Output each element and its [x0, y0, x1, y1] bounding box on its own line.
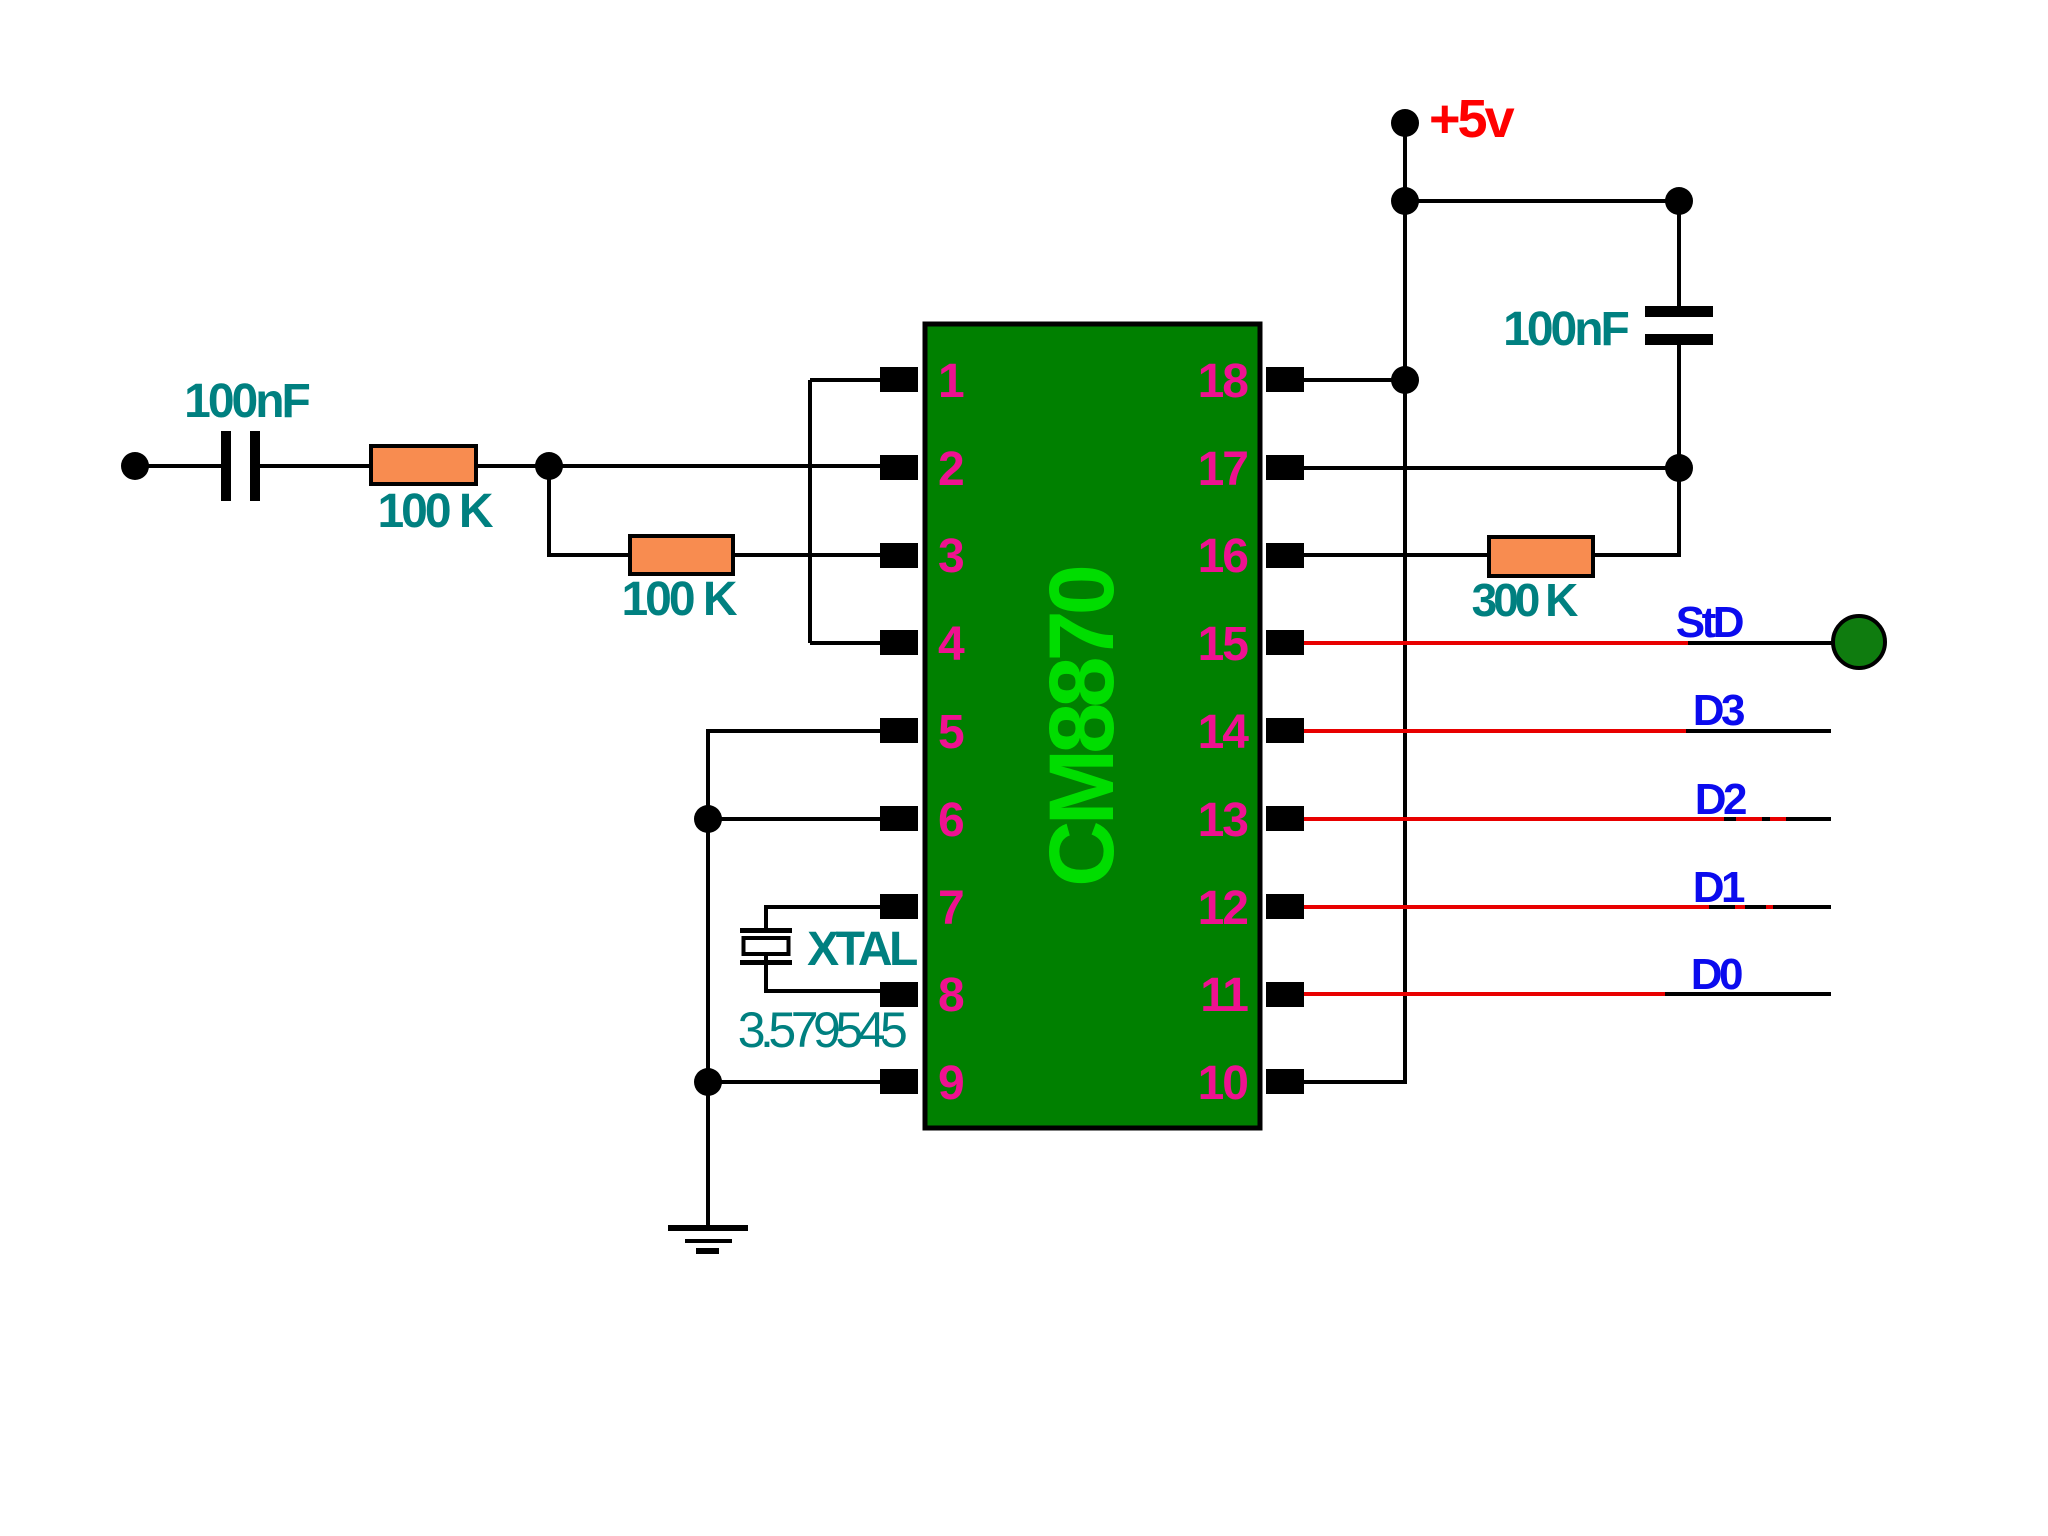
svg-text:5: 5 [938, 706, 964, 759]
svg-text:6: 6 [938, 794, 963, 847]
svg-text:9: 9 [938, 1057, 963, 1110]
svg-text:XTAL: XTAL [807, 923, 917, 976]
svg-text:StD: StD [1676, 598, 1743, 647]
svg-text:1: 1 [938, 355, 964, 408]
svg-text:15: 15 [1198, 618, 1249, 671]
svg-text:100 K: 100 K [377, 485, 493, 538]
svg-text:3.579545: 3.579545 [738, 1002, 906, 1058]
svg-text:300 K: 300 K [1472, 574, 1579, 626]
svg-text:18: 18 [1198, 355, 1249, 408]
svg-text:+5v: +5v [1429, 89, 1515, 149]
svg-text:7: 7 [938, 882, 963, 935]
svg-text:100 K: 100 K [621, 573, 737, 626]
svg-text:8: 8 [938, 969, 964, 1022]
svg-text:17: 17 [1198, 443, 1248, 496]
svg-text:11: 11 [1200, 969, 1248, 1022]
svg-text:12: 12 [1198, 882, 1248, 935]
svg-text:D1: D1 [1693, 863, 1745, 912]
svg-text:100nF: 100nF [1503, 303, 1628, 356]
svg-text:100nF: 100nF [184, 375, 309, 428]
svg-text:4: 4 [938, 618, 965, 671]
svg-text:D3: D3 [1693, 686, 1744, 735]
svg-text:D0: D0 [1691, 950, 1742, 999]
svg-text:D2: D2 [1695, 775, 1746, 824]
svg-text:2: 2 [938, 443, 963, 496]
svg-text:16: 16 [1198, 530, 1248, 583]
svg-text:14: 14 [1198, 706, 1250, 759]
svg-text:13: 13 [1198, 794, 1248, 847]
svg-text:CM8870: CM8870 [1031, 567, 1133, 887]
svg-text:3: 3 [938, 530, 963, 583]
svg-text:10: 10 [1198, 1057, 1248, 1110]
